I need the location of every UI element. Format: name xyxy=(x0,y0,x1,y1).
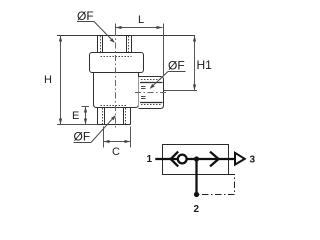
outlet triangle xyxy=(235,153,245,165)
centerline side port xyxy=(135,92,167,94)
flow arrow xyxy=(210,152,219,167)
dimension H1 xyxy=(164,36,198,91)
main body xyxy=(94,73,139,108)
port 2 node dot xyxy=(194,192,199,197)
extension line top datum xyxy=(57,35,195,37)
side port xyxy=(139,77,164,109)
pneumatic symbol box xyxy=(163,145,229,175)
svg-text:3: 3 xyxy=(250,155,256,166)
svg-text:ØF: ØF xyxy=(168,59,185,73)
side port bore bottom xyxy=(140,102,163,104)
bottom port bore lines xyxy=(105,108,124,124)
hex flange xyxy=(90,53,144,73)
centerline vertical xyxy=(115,30,117,128)
check valve ball xyxy=(178,155,187,164)
svg-text:H1: H1 xyxy=(197,58,213,72)
extension line bottom datum xyxy=(57,124,98,126)
body hidden line bottom xyxy=(101,105,128,107)
flange hidden thread line xyxy=(101,56,132,58)
junction dot xyxy=(194,156,199,161)
pilot line dash-dot xyxy=(199,175,235,195)
check valve seat xyxy=(171,152,179,167)
side port bore top xyxy=(140,82,163,84)
dimension L xyxy=(116,24,164,77)
side port thread ticks xyxy=(141,87,146,99)
branch line to port 2 xyxy=(195,159,197,195)
svg-text:L: L xyxy=(138,14,144,26)
svg-text:2: 2 xyxy=(194,204,200,215)
svg-text:H: H xyxy=(44,74,52,86)
main flow line xyxy=(155,158,235,160)
dimension H xyxy=(59,36,62,125)
top port outline xyxy=(98,35,132,53)
bottom port thread dashed lines xyxy=(103,108,126,124)
svg-text:C: C xyxy=(112,146,120,158)
svg-text:E: E xyxy=(72,110,79,122)
top port bore lines xyxy=(103,36,127,53)
svg-text:1: 1 xyxy=(147,154,153,165)
top port thread dashed lines xyxy=(101,36,129,53)
dimension C xyxy=(104,127,131,148)
svg-text:ØF: ØF xyxy=(77,9,94,23)
side port thread dotted top xyxy=(141,79,162,81)
bottom port outline xyxy=(98,108,131,125)
dimension E xyxy=(82,107,90,125)
side port thread dotted bottom xyxy=(141,104,162,106)
svg-text:ØF: ØF xyxy=(74,130,91,144)
